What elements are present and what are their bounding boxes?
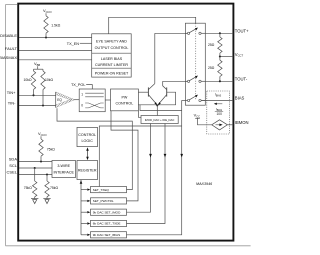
svg-text:LASER BIAS: LASER BIAS [101, 57, 123, 61]
wire TOUT- rail [205, 80, 233, 82]
wire IBMON rail [227, 124, 233, 126]
svg-text:PW: PW [121, 95, 127, 99]
wire register to control rail [99, 126, 181, 187]
wire Q2 collector to switch SW2 [163, 80, 188, 82]
current arrow IBIAS (left) [215, 103, 222, 105]
svg-text:EQ: EQ [57, 98, 62, 102]
svg-text:CURRENT LIMITER: CURRENT LIMITER [95, 63, 128, 67]
svg-text:75kΩ: 75kΩ [24, 186, 32, 190]
wire SET_TXDE to DAC [127, 124, 166, 224]
svg-text:75kΩ: 75kΩ [47, 148, 55, 152]
svg-text:10kΩ: 10kΩ [23, 78, 31, 82]
svg-text:IMOD_DAC + IDE_DAC: IMOD_DAC + IDE_DAC [145, 118, 175, 122]
svg-text:CSEL: CSEL [7, 170, 18, 175]
svg-text:TOUT-: TOUT- [235, 77, 248, 82]
block: 3-wire interface [52, 161, 76, 178]
transistor Q1 (left of output pair) [147, 87, 149, 96]
resistor R8 25ohm [219, 57, 221, 61]
resistor R3 10k [42, 69, 44, 71]
svg-text:REGISTER: REGISTER [78, 169, 97, 173]
wire TX_EN [80, 42, 92, 44]
wire TIN+ [19, 94, 56, 96]
switch SW3 [187, 99, 189, 101]
wire EQ out [74, 99, 79, 101]
svg-text:25Ω: 25Ω [208, 66, 215, 70]
svg-text:SET_TXEQ: SET_TXEQ [93, 188, 110, 192]
svg-text:SET_PWCTRL: SET_PWCTRL [93, 199, 114, 203]
ground symbol (CSEL) [43, 198, 50, 200]
wire TX_POL [86, 85, 92, 89]
wire SCL pulldown [34, 168, 36, 181]
svg-text:9b DAC SET_IBIAS: 9b DAC SET_IBIAS [93, 233, 120, 237]
junction on DISABLE line [45, 36, 47, 38]
svg-text:INTERFACE: INTERFACE [53, 170, 74, 174]
wire SCL [19, 167, 52, 169]
wire SET_PWCTRL to PW control [111, 111, 138, 201]
junction on SDA [40, 160, 42, 162]
svg-text:CONTROL: CONTROL [78, 133, 96, 137]
svg-text:1: 1 [81, 93, 83, 97]
svg-text:100: 100 [217, 112, 223, 116]
wire BIASMAX [19, 59, 92, 61]
svg-text:10kΩ: 10kΩ [45, 78, 53, 82]
wire register bus [80, 180, 82, 235]
block: output switches [185, 23, 205, 105]
svg-text:3-WIRE: 3-WIRE [57, 164, 70, 168]
ground symbol (SCL) [31, 198, 38, 200]
junction on CSEL [46, 173, 48, 175]
svg-text:SDA: SDA [9, 157, 18, 162]
junction VCCT [219, 55, 221, 57]
wire PW to Q1 base [138, 91, 148, 93]
dotted control line in switch block [195, 23, 197, 100]
wire SW3 left to IBIAS DAC line [182, 99, 186, 101]
wire VCC to current source [198, 118, 212, 125]
block: IMOD_DAC + IDE_DAC [141, 116, 178, 124]
svg-text:75kΩ: 75kΩ [50, 186, 58, 190]
wire R6 to ground [46, 197, 48, 199]
svg-text:TIN-: TIN- [8, 100, 16, 105]
resistor R1 1.5k [44, 16, 48, 33]
block: register [77, 161, 98, 180]
svg-text:EYE SAFETY AND: EYE SAFETY AND [96, 39, 127, 43]
resistor R4 75k [39, 139, 43, 156]
wire R3 to TIN- [42, 90, 44, 106]
wire output stage tail rail [140, 105, 182, 111]
wire PW to Q2 base [138, 92, 175, 105]
wire FAULT [19, 49, 92, 51]
block: control logic [77, 127, 98, 146]
wire VCCT rail [220, 56, 233, 58]
junction TOUT- [219, 80, 221, 82]
figure outer border [5, 5, 7, 246]
switch SW1 [187, 32, 189, 34]
wire output-control to switches [109, 17, 196, 34]
wire R1 to DISABLE [45, 33, 47, 37]
transistor Q2 (right of output pair) [166, 87, 168, 96]
svg-text:IBMON: IBMON [235, 120, 249, 125]
wire SET_TXEQ to EQ [57, 108, 132, 189]
svg-text:DISABLE: DISABLE [0, 33, 17, 38]
register 9b_DAC_SET_IMOD [81, 211, 87, 213]
svg-text:BIAS: BIAS [235, 96, 245, 101]
block: polarity mux [79, 89, 105, 112]
wire DISABLE [19, 37, 92, 39]
svg-text:FAULT: FAULT [5, 46, 18, 51]
wire TIN- [19, 105, 56, 107]
resistor R6 75k [45, 181, 49, 197]
junction TOUT+ [219, 32, 221, 34]
block: bias monitor (dashed) [207, 91, 230, 134]
junction on SCL [34, 167, 36, 169]
wire PW bottom jog to DAC box [138, 111, 141, 118]
wire VBB split [34, 68, 44, 70]
svg-text:POWER-ON RESET: POWER-ON RESET [95, 71, 129, 75]
wire emitters to tail DAC [156, 105, 158, 115]
wire CSEL pulldown [46, 175, 48, 182]
resistor R2 10k [33, 69, 35, 71]
svg-text:TIN+: TIN+ [7, 90, 16, 95]
IC boundary frame U1 MAX3946 [18, 4, 233, 241]
current source D1 (diamond) IBMON [212, 120, 228, 130]
svg-text:1.5kΩ: 1.5kΩ [51, 24, 60, 28]
svg-text:SCL: SCL [9, 163, 18, 168]
svg-text:9b DAC SET_IMOD: 9b DAC SET_IMOD [93, 210, 121, 214]
svg-text:MAX3946: MAX3946 [196, 182, 213, 186]
switch SW2 [187, 80, 189, 82]
wire SDA [19, 161, 52, 163]
register 6b_DAC_SET_TXDE [81, 223, 87, 225]
wire R2 to TIN+ [33, 90, 35, 96]
block: eye safety and output control / laser bias current limiter / power-on reset [92, 34, 132, 77]
wire SET_IMOD to DAC [127, 124, 151, 213]
junction on TIN+ [32, 94, 34, 96]
node common emitters [156, 104, 158, 106]
svg-text:TX_EN: TX_EN [67, 42, 79, 46]
wire R4 to SDA [40, 156, 42, 161]
wire Q1 collector to switch SW1 [155, 32, 188, 34]
wire TOUT+ rail [205, 32, 233, 34]
resistor R7 25ohm [219, 33, 221, 37]
svg-text:25Ω: 25Ω [208, 43, 215, 47]
resistor R5 75k [33, 181, 37, 197]
svg-text:LOGIC: LOGIC [82, 139, 94, 143]
svg-text:6b DAC SET_TXDE: 6b DAC SET_TXDE [93, 222, 121, 226]
svg-text:OUTPUT CONTROL: OUTPUT CONTROL [95, 46, 129, 50]
svg-text:TOUT+: TOUT+ [235, 29, 249, 34]
register SET_TXEQ [81, 189, 87, 191]
wire R5 to ground [34, 197, 36, 199]
wire CSEL [19, 174, 52, 176]
svg-text:CONTROL: CONTROL [115, 102, 133, 106]
svg-text:BIASMAX: BIASMAX [0, 55, 17, 60]
register 9b_DAC_SET_IBIAS [81, 234, 87, 236]
block: PW control [111, 89, 139, 111]
wire logic-register (bidirectional) [87, 149, 89, 158]
register SET_PWCTRL [81, 200, 87, 202]
wire SET_IBIAS to bias switch [127, 100, 182, 234]
wire mux to PW control [105, 99, 110, 101]
junction on TIN- [42, 104, 44, 106]
wire SW3 to BIAS dashed box [201, 99, 233, 101]
svg-text:0: 0 [81, 103, 83, 107]
svg-text:TX_POL: TX_POL [71, 83, 86, 87]
